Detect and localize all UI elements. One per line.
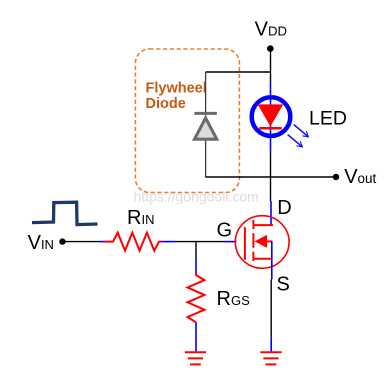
wire gate node down (blue) xyxy=(195,260,197,273)
svg-text:LED: LED xyxy=(309,107,347,129)
wire flywheel top branch xyxy=(206,71,271,73)
wire bottom branch to Vout xyxy=(206,176,336,178)
svg-text:VIN: VIN xyxy=(28,232,54,254)
LED D2 triangle xyxy=(258,104,284,126)
node VDD dot xyxy=(267,45,274,52)
wire VIN to RIN (blue) xyxy=(99,241,105,243)
MOSFET Q1 channel bottom segment xyxy=(252,252,254,261)
wire body to source (blue) xyxy=(271,241,273,279)
svg-text:D: D xyxy=(277,197,291,219)
LED D2 cathode bar xyxy=(259,127,282,130)
wire drain (blue) xyxy=(270,201,272,225)
svg-text:VDD: VDD xyxy=(255,19,287,41)
MOSFET Q1 gate plate xyxy=(244,227,246,260)
ground under source xyxy=(260,352,281,364)
pulse waveform symbol xyxy=(32,202,98,224)
resistor RGS xyxy=(188,273,205,323)
flywheel diode dashed box xyxy=(135,49,239,193)
LED D2 circle xyxy=(252,97,291,136)
MOSFET Q1 channel top segment xyxy=(252,220,254,229)
MOSFET Q1 arrow tail xyxy=(267,240,272,242)
svg-text:Flywheel: Flywheel xyxy=(146,81,207,97)
wire source down (black) xyxy=(270,279,272,337)
wire RIN to gate node (blue) xyxy=(162,241,176,243)
MOSFET Q1 drain stub xyxy=(253,224,273,226)
ground under RGS xyxy=(185,352,206,364)
resistor RIN xyxy=(105,233,162,251)
wire RGS to ground (blue) xyxy=(195,322,197,351)
wire VDD line through LED (blue) xyxy=(270,83,272,152)
svg-text:RGS: RGS xyxy=(217,288,251,310)
svg-text:G: G xyxy=(217,220,233,242)
MOSFET Q1 body circle xyxy=(235,216,289,269)
diode D1 triangle xyxy=(195,118,217,139)
svg-text:https://gongdoli.com: https://gongdoli.com xyxy=(134,189,259,205)
wire gate entry (blue) xyxy=(224,241,237,243)
wire source to ground (blue) xyxy=(270,338,272,352)
wire VIN to RIN (black) xyxy=(62,241,99,243)
wire VDD node to flywheel junction xyxy=(270,49,272,83)
MOSFET Q1 source stub xyxy=(253,258,272,260)
node Vout dot xyxy=(333,174,339,180)
wire gate node down (black) xyxy=(195,242,197,260)
wire flywheel diode branch vertical xyxy=(205,72,207,177)
wire RIN to gate node (black) xyxy=(175,241,224,243)
LED light arrow 2 xyxy=(288,135,303,147)
LED light arrow 1 xyxy=(294,125,309,137)
node VIN dot xyxy=(59,238,65,244)
MOSFET Q1 body arrow xyxy=(255,235,268,248)
diode D1 cathode bar xyxy=(194,112,217,115)
wire LED bottom to Vout junction xyxy=(270,151,272,201)
svg-text:Diode: Diode xyxy=(146,96,186,112)
svg-text:Vout: Vout xyxy=(344,166,376,188)
svg-text:RIN: RIN xyxy=(127,207,154,229)
MOSFET Q1 channel middle segment xyxy=(252,233,254,248)
svg-text:S: S xyxy=(277,274,290,296)
